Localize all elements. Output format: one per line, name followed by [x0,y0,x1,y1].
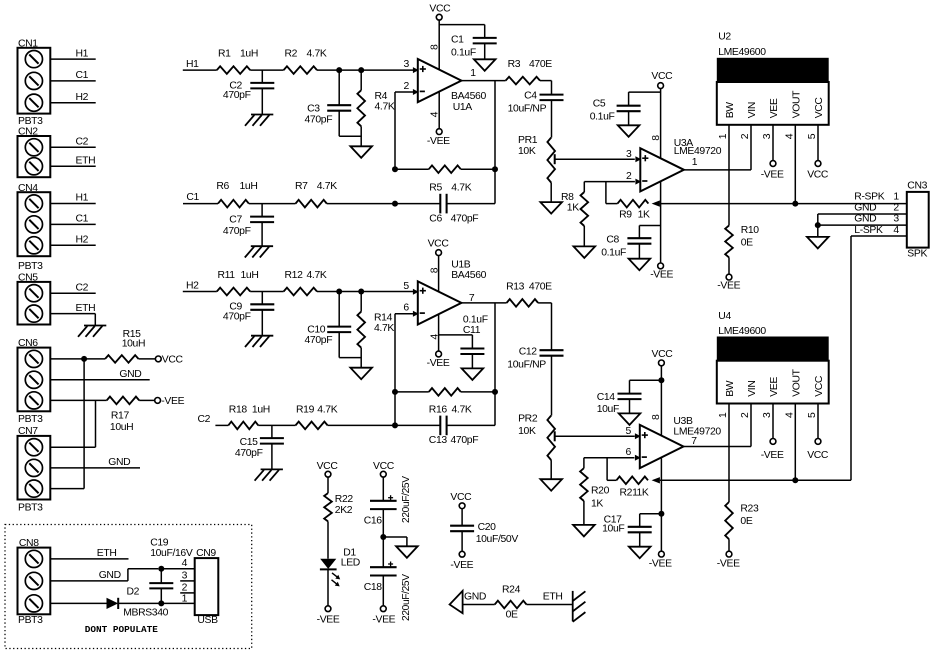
label 4.7K (R4) [375,102,395,113]
wire D1 to -VEE [327,569,329,605]
svg-text:2: 2 [893,203,899,214]
svg-text:R7: R7 [295,181,308,192]
svg-text:R20: R20 [591,486,610,497]
label R18 [229,404,248,415]
pin 7 (U3B) [691,436,697,447]
pin label BW (U2) [725,102,736,119]
wire C2 input [215,424,228,426]
label 0.1uF (C11) [463,315,488,326]
wire C17 branch [640,514,662,527]
ground (PR2) [540,479,562,491]
wire CN1 H1 [50,58,95,60]
wire CN6 pin1 to R15 [50,358,105,360]
op-amp U3A [635,148,684,191]
svg-text:VCC: VCC [429,4,451,15]
label C15 [240,437,259,448]
node C2 input [198,414,211,425]
node L-SPK [854,225,883,236]
terminal -VEE (D1) [325,606,331,612]
pin 5 (U2) [807,133,818,139]
trimmer PR2 [547,416,555,480]
label 1uH (R11) [241,270,259,281]
wire CN8 GND [50,569,158,581]
label 10uF/NP (C12) [507,360,546,371]
label C13 [429,435,448,446]
svg-text:GND: GND [854,214,876,225]
pin label VEE (U4) [769,377,780,397]
wire H1 input [183,69,217,71]
svg-text:4.7K: 4.7K [452,405,472,416]
label 10uF (C14) [597,404,619,415]
wire VCC to C20 [461,509,463,526]
label PR1 [518,135,538,146]
wire R5 row [395,168,495,170]
svg-text:1uH: 1uH [241,270,259,281]
label 470pF (C2) [223,90,251,101]
capacitor C3 [327,70,351,136]
resistor R24 [495,601,527,609]
wire VCC to U3A pin8 [660,89,662,159]
label R10 [741,225,760,236]
wire U4 VOUT stub [794,404,796,481]
capacitor C18 [370,537,397,606]
svg-text:PR1: PR1 [518,135,538,146]
label BA4560 (U1B) [451,270,486,281]
label VCC (C16) [373,461,395,472]
node ETH (R24) [543,592,563,603]
resistor R19 [296,422,328,430]
label GND (CN7) [108,457,130,468]
svg-text:2: 2 [182,582,188,593]
wire CN8 ETH [50,558,128,560]
svg-text:1K: 1K [591,499,603,510]
resistor R21 [616,477,648,485]
diode D2 [107,598,119,609]
svg-text:C10: C10 [307,324,326,335]
label C20 [478,522,497,533]
svg-text:VCC: VCC [807,170,829,181]
pin label VIN (U4) [747,381,758,397]
capacitor C14 [618,394,642,414]
label 1K (R9) [638,210,650,221]
label C2 [229,80,242,91]
polarity + (C18) [388,562,393,567]
node GND (CN3 pin3) [854,214,876,225]
wire R17 to -VEE [139,399,155,401]
wire CN5 ETH [50,314,95,326]
label C17 [604,515,623,526]
label 1K (R21) [637,488,649,499]
svg-text:0E: 0E [740,516,752,527]
label C10 [307,324,326,335]
label BA4560 (U1A) [451,91,486,102]
wire CN3 GND2 [818,213,907,215]
label C5 [593,99,606,110]
svg-text:GND: GND [108,457,130,468]
svg-text:CN5: CN5 [18,273,38,284]
svg-text:10uH: 10uH [122,338,145,349]
svg-text:C2: C2 [76,137,89,148]
label CN7 [18,426,38,437]
svg-text:CN8: CN8 [19,538,39,549]
pin 4 (U4) [784,412,795,418]
svg-text:BA4560: BA4560 [451,270,486,281]
trimmer PR1 [547,138,555,203]
svg-text:0E: 0E [741,238,753,249]
svg-text:C12: C12 [519,347,538,358]
resistor R23 [725,502,733,551]
wire L-SPK row [660,479,851,481]
terminal -VEE (U3A) [658,263,664,269]
svg-text:VCC: VCC [651,71,673,82]
label VCC (U4 pin5) [807,450,829,461]
svg-text:4: 4 [784,412,795,418]
wire U1B pin6 net [395,314,413,426]
label C1 [451,34,464,45]
label C19 [150,538,169,549]
wire CN1 H2 [50,102,95,104]
resistor R5 [429,165,461,173]
svg-text:R5: R5 [429,183,442,194]
GND arrow flag [450,591,463,613]
resistor R22 [324,493,332,559]
label C6 [429,214,442,225]
ground (PR1) [540,202,562,214]
ground earth (C2) [245,115,273,126]
label 4.7K (R7) [317,181,337,192]
wire VCC to U1A pin8 [438,20,440,69]
label 4.7K (R2) [307,49,327,60]
resistor R14 [357,292,365,368]
wire U3A pin2 net [584,181,635,183]
svg-text:VCC: VCC [814,97,825,119]
junction U2 VOUT / R-SPK [792,201,798,207]
svg-text:4: 4 [182,558,188,569]
label R24 [502,584,521,595]
pin 4 (U2) [784,133,795,139]
wire R11 to R12 [250,291,283,293]
svg-text:H1: H1 [76,48,89,59]
label D2 [127,586,140,597]
terminal -VEE (U1A) [436,129,442,135]
label 470pF (C15) [235,448,263,459]
wire CN7 GND [50,467,140,469]
svg-text:470pF: 470pF [305,335,333,346]
label R2 [285,49,298,60]
wire H2 input [183,291,217,293]
buffer U4 LME49600 body [717,337,829,404]
svg-text:CN4: CN4 [18,183,38,194]
svg-text:U2: U2 [718,32,731,43]
label R17 [111,410,130,421]
svg-text:R18: R18 [229,404,248,415]
svg-text:1uH: 1uH [240,49,258,60]
svg-text:3: 3 [182,570,188,581]
label 10uH (R17) [110,422,133,433]
svg-text:H2: H2 [186,280,199,291]
wire R13 to C12 [538,303,551,350]
capacitor C20 [450,526,474,552]
terminal -VEE (C18) [380,606,386,612]
capacitor C11 [460,349,484,369]
node C1 (CN1) [76,70,89,81]
label CN9 [196,548,216,559]
svg-text:GND: GND [464,592,486,603]
pin 5 (U4) [807,412,818,418]
wire C5 branch [629,92,661,106]
label R22 [335,494,354,505]
svg-text:8: 8 [651,414,662,420]
label CN8 [19,538,39,549]
svg-text:10uF: 10uF [597,404,619,415]
svg-text:PBT3: PBT3 [18,414,43,425]
svg-text:470pF: 470pF [223,312,251,323]
node C2 (CN5) [76,282,89,293]
polarity + (C16) [388,495,393,500]
svg-text:VEE: VEE [769,377,780,397]
label -VEE (U3A) [650,270,673,281]
wire U3B output [683,446,751,448]
label LME49720 (U3A) [674,146,722,157]
terminal -VEE (R10) [726,274,732,280]
svg-text:10uF/50V: 10uF/50V [476,534,519,545]
svg-text:470pF: 470pF [451,214,479,225]
wire CN2 C2 [50,146,95,148]
label 220uF/25V (C18) [401,574,412,621]
capacitor C6 [440,194,446,214]
pin 2 (CN9) [182,582,188,593]
connector CN1 [18,48,51,114]
label PR2 [518,413,538,424]
svg-text:VEE: VEE [769,98,780,118]
ground earth (C7) [245,246,273,257]
svg-text:H1: H1 [186,59,199,70]
label R19 [296,404,315,415]
wire VCC to U1B pin8 [438,256,440,292]
svg-text:C5: C5 [593,99,606,110]
label CN4 [18,183,38,194]
svg-text:GND: GND [119,369,141,380]
svg-text:-VEE: -VEE [427,136,450,147]
terminal -VEE (U2 pin3) [770,161,776,167]
node H2 (CN4) [76,235,89,246]
pin 6 (U3B) [626,447,632,458]
pin 1 (CN9) [182,593,188,604]
svg-text:PBT3: PBT3 [18,261,43,272]
svg-text:USB: USB [197,615,218,626]
label R7 [295,181,308,192]
svg-text:2: 2 [626,171,632,182]
junction C16/C18 [380,534,386,540]
label -VEE (U2 pin3) [761,170,784,181]
svg-text:BW: BW [725,380,736,397]
label MBRS340 (D2) [123,607,168,618]
ground (C16/C18) [396,546,418,558]
svg-text:4.7K: 4.7K [375,102,395,113]
wire CN4 H1 [50,203,95,205]
label R15 [123,329,142,340]
svg-text:C3: C3 [307,104,320,115]
svg-text:VOUT: VOUT [792,90,803,118]
label R12 [285,270,304,281]
wire CN6-CN7 bus A [83,359,85,489]
ground earth (CN5 ETH) [78,326,106,337]
pin 1 (U4) [718,412,729,418]
svg-text:ETH: ETH [76,156,96,167]
label U2 [718,32,731,43]
label 4.7K (R19) [317,404,337,415]
label 0E (R23) [740,516,752,527]
svg-text:CN9: CN9 [196,548,216,559]
label R9 [619,210,632,221]
ground (R8) [574,246,596,258]
wire VCC to U3B pin8 [660,366,662,436]
label -VEE (R17) [161,396,184,407]
label R14 [374,312,393,323]
wire R12 to U1B pin5 [317,291,413,293]
pin 7 (U1B) [469,293,475,304]
pin 2 (U3A) [626,171,632,182]
junction R5 left [392,166,398,172]
svg-text:4.7K: 4.7K [374,323,394,334]
svg-text:CN6: CN6 [18,338,38,349]
resistor R4 [357,70,365,146]
terminal VCC (U1A) [436,14,442,20]
svg-text:C15: C15 [240,437,259,448]
svg-text:220uF/25V: 220uF/25V [401,574,412,621]
label U1A [453,102,473,113]
capacitor C5 [617,106,641,126]
wire R7 to U1A fb [327,203,395,205]
pin 3 (U3A) [626,149,632,160]
capacitor C9 [250,292,274,336]
connector CN6 [18,348,51,412]
LED D1 arrows [332,573,341,587]
svg-text:-VEE: -VEE [161,396,184,407]
label C14 [597,392,616,403]
label R6 [216,181,229,192]
label -VEE (R23) [717,559,740,570]
pin 6 (U1B) [403,302,409,313]
connector CN8 [18,548,51,615]
svg-text:C8: C8 [606,235,619,246]
resistor R2 [284,66,317,74]
ground (R20) [573,525,595,537]
svg-text:0.1uF: 0.1uF [451,47,476,58]
ground earth (C15) [255,469,283,480]
pin 4 (U1B) [430,334,441,340]
terminal VCC (U3A) [658,83,664,89]
svg-text:2: 2 [740,133,751,139]
label C11 [463,325,481,336]
svg-text:1: 1 [718,412,729,418]
svg-text:3: 3 [893,214,899,225]
svg-text:U1B: U1B [451,259,471,270]
resistor R12 [284,288,317,296]
terminal -VEE (U4 pin3) [770,439,776,445]
svg-text:U3B: U3B [673,416,693,427]
svg-text:VCC: VCC [814,375,825,397]
label C4 [524,90,537,101]
node GND (R24) [464,592,486,603]
label U3B [673,416,693,427]
label CN5 [18,273,38,284]
wire U1B pin4 to -VEE [438,314,440,351]
svg-text:C20: C20 [478,522,497,533]
wire CN8 pin3 to D2 [50,602,106,604]
svg-text:10uF: 10uF [602,524,624,535]
svg-text:6: 6 [626,447,632,458]
label -VEE (U1B) [427,358,450,369]
junction C13 left [392,422,398,428]
svg-text:C16: C16 [364,515,383,526]
connector CN3 [907,192,929,248]
LED D1 [320,559,337,570]
svg-text:LME49600: LME49600 [718,326,766,337]
node H2 (CN1) [76,92,89,103]
wire U3A pin4 to -VEE [660,181,662,263]
svg-text:470E: 470E [529,281,552,292]
label 10uF (C17) [602,524,624,535]
wire U2 VIN stub [750,125,752,170]
label SPK (CN3) [907,249,927,260]
label 220uF/25V (C16) [401,476,412,523]
label DONT POPULATE [85,624,159,635]
label 10uF/NP (C4) [508,104,547,115]
svg-text:R6: R6 [216,181,229,192]
wire CN3 L-SPK [851,236,907,480]
svg-text:C13: C13 [429,435,448,446]
wire R21 left leg [607,458,616,481]
svg-text:U4: U4 [718,311,731,322]
resistor R7 [296,200,327,208]
capacitor C1 [473,38,497,59]
label R8 [561,192,574,203]
pin 3 (U4) [762,412,773,418]
connector CN5 [18,282,51,325]
resistor R20 [580,458,588,525]
svg-text:C1: C1 [186,192,199,203]
svg-text:4.7K: 4.7K [307,270,327,281]
pin 3 (CN9) [182,570,188,581]
ground (C11) [462,368,484,380]
svg-text:C1: C1 [76,70,89,81]
terminal -VEE (U1B) [436,351,442,357]
terminal VCC (U2 pin5) [815,161,821,167]
wire C13 row [395,424,495,426]
svg-text:R19: R19 [296,404,315,415]
wire C19 top to CN9 pin4 [161,568,194,570]
wire R9 left leg [606,182,618,204]
label PBT3 (CN1) [18,116,43,127]
label C7 [229,214,242,225]
wire U3B pin4 to -VEE [660,458,662,551]
inductor R11 [217,288,250,296]
svg-text:PR2: PR2 [518,413,538,424]
svg-text:R12: R12 [285,270,304,281]
svg-text:-VEE: -VEE [317,615,340,626]
junction C3 tap [336,67,342,73]
node C1 input [186,192,199,203]
svg-text:10K: 10K [518,146,536,157]
label 10uH (R15) [122,338,145,349]
terminal -VEE (R23) [726,551,732,557]
wire C6 row [395,203,495,205]
op-amp U3B [635,425,684,468]
svg-text:1: 1 [182,593,188,604]
pin 8 (U1A) [430,44,441,50]
svg-text:C1: C1 [451,34,464,45]
